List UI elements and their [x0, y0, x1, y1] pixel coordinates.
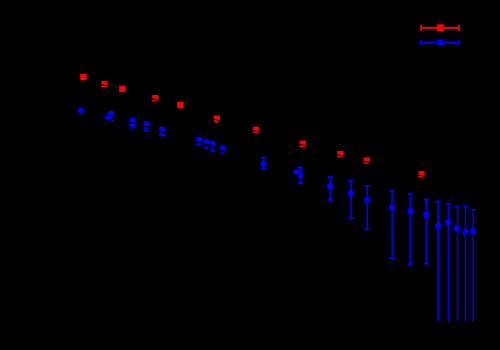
blue point 14: [407, 193, 414, 265]
blue point 6a: [196, 137, 203, 146]
blue point 10: [326, 176, 333, 201]
blue point 13: [389, 190, 396, 259]
red square series: [80, 74, 424, 178]
blue point 17 (clipped long bar): [445, 203, 452, 322]
blue point 19 (clipped long bar): [462, 206, 469, 322]
red point 4: [152, 95, 158, 101]
blue point 11: [347, 180, 354, 219]
blue point 20 (clipped long bar): [469, 209, 476, 322]
blue point 16 (clipped long bar): [435, 201, 442, 322]
blue errorbar series: [78, 108, 477, 322]
blue point 18 (clipped long bar): [453, 206, 460, 322]
blue point 12: [364, 185, 371, 230]
red point 1: [80, 74, 86, 80]
red point 5: [177, 102, 183, 110]
red point 7: [253, 127, 259, 133]
red point 3: [119, 86, 125, 92]
blue point 3 (pair with caps): [129, 118, 136, 129]
blue point 6b: [203, 139, 210, 149]
black data line overlay (cuts notches through markers): [78, 85, 426, 177]
red point 6: [214, 116, 220, 124]
blue point 15: [423, 199, 430, 265]
blue point 8: [260, 157, 267, 170]
red point 8: [300, 141, 306, 147]
red point 9: [337, 151, 343, 157]
blue point 7: [219, 146, 226, 154]
blue point 1: [78, 108, 85, 114]
red point 10: [364, 158, 370, 164]
blue point 9 (pair): [293, 167, 304, 184]
legend blue errorbar sample: [420, 39, 460, 45]
red point 11: [418, 171, 424, 177]
blue point 6c: [209, 141, 216, 152]
red point 2: [101, 81, 107, 87]
legend red errorbar sample: [420, 24, 460, 31]
blue point 4 (marker + dash + lower cap): [143, 121, 150, 131]
blue point 5 (cap + pair): [159, 127, 166, 138]
blue point 2 (pair + lower cap): [104, 111, 114, 122]
